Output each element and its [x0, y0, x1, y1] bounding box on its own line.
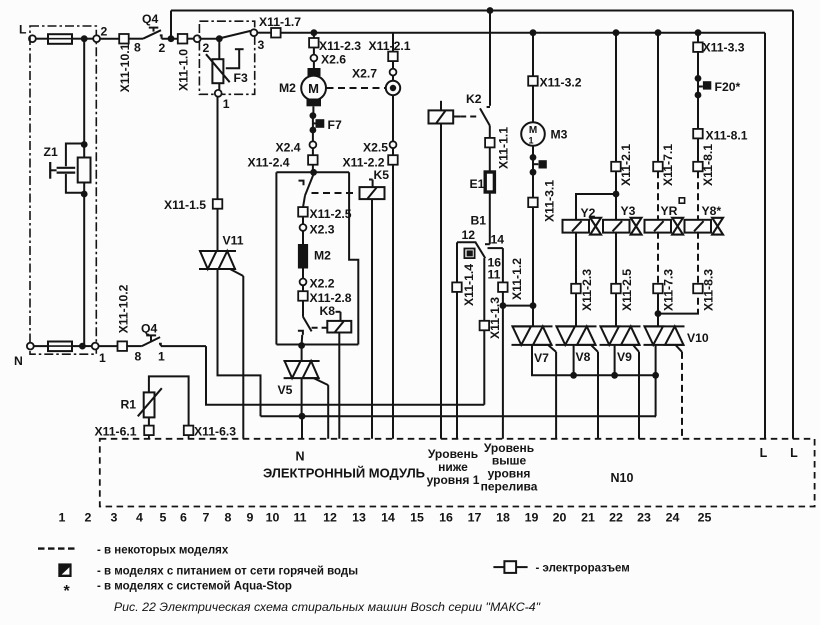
wire [312, 106, 314, 115]
svg-text:K8: K8 [320, 304, 336, 318]
wire [312, 165, 314, 173]
hot-water marker at contact 12 [464, 249, 474, 259]
wire bus down to module pin L [764, 33, 766, 439]
fuse (mains input) [48, 38, 72, 40]
wire [162, 38, 183, 40]
connector X11-8.1 (lower) [693, 162, 703, 172]
wire [483, 330, 485, 405]
node Y2 tee [613, 191, 620, 198]
wire [697, 95, 699, 129]
svg-text:Y8*: Y8* [702, 204, 722, 218]
switch K8 contact [303, 317, 312, 332]
wire Y2 feed [576, 194, 616, 220]
switch K5 contact (motor reversing) [299, 181, 304, 186]
svg-text:1: 1 [223, 97, 230, 111]
wire [502, 248, 504, 282]
thermal fuse F7 [313, 122, 316, 124]
node K2 tap on top rail [487, 7, 494, 14]
svg-text:4: 4 [136, 511, 143, 525]
wire tee to M3/V7 line [503, 305, 533, 307]
wire [72, 345, 82, 347]
svg-text:23: 23 [637, 511, 651, 525]
dashed wire Y8 [697, 171, 699, 220]
svg-text:V5: V5 [278, 383, 293, 397]
wire [532, 207, 534, 326]
svg-text:V10: V10 [687, 331, 709, 345]
node Z1 top [81, 141, 88, 148]
wire [83, 194, 85, 346]
wire to top rail [170, 11, 172, 39]
node commutator bottom [298, 342, 305, 349]
svg-text:YR: YR [661, 204, 678, 218]
connector X11-3.2 [528, 76, 538, 86]
svg-text:10: 10 [266, 511, 280, 525]
connector X11-1.2 [498, 282, 508, 292]
svg-text:3: 3 [258, 38, 265, 52]
node M3 branch [530, 29, 537, 36]
connector X11-7.1 [653, 162, 663, 172]
svg-text:F3: F3 [234, 71, 248, 85]
svg-text:X2.7: X2.7 [352, 67, 377, 81]
node Z1 bottom [81, 191, 88, 198]
svg-text:11: 11 [488, 268, 501, 282]
svg-text:X11-3.2: X11-3.2 [540, 76, 582, 90]
connector X11-1.4 [452, 282, 462, 292]
svg-text:X11-3.1: X11-3.1 [543, 180, 557, 222]
svg-text:X2.6: X2.6 [321, 53, 346, 67]
svg-text:X11-2.8: X11-2.8 [310, 291, 352, 305]
svg-text:1: 1 [59, 511, 66, 525]
dashed mechanical link to K8 [312, 327, 328, 329]
switch K2 contact [487, 106, 490, 108]
wire [615, 293, 617, 326]
svg-text:15: 15 [410, 511, 424, 525]
wire X11-1.4 line to module [456, 242, 458, 282]
svg-text:K2: K2 [466, 92, 482, 106]
svg-text:X11-2.5: X11-2.5 [310, 207, 352, 221]
wire [34, 345, 48, 347]
svg-text:X11-8.1: X11-8.1 [701, 144, 715, 186]
fuse (N side) [48, 345, 72, 347]
wire commutator frame right [349, 172, 358, 344]
svg-text:2: 2 [85, 511, 92, 525]
svg-text:8: 8 [134, 41, 141, 55]
wire [82, 345, 95, 347]
terminal 1 [92, 343, 99, 350]
node V8 bottom [570, 372, 577, 379]
wire [392, 95, 394, 141]
node commutator top [310, 169, 317, 176]
wire [532, 86, 534, 123]
wire [615, 232, 617, 284]
svg-text:3: 3 [111, 511, 118, 525]
svg-text:уровня: уровня [488, 467, 531, 481]
svg-text:X11-2.1: X11-2.1 [369, 39, 411, 53]
hot-water marker at M3 [533, 163, 538, 165]
svg-text:20: 20 [553, 511, 567, 525]
node F20 bottom [695, 92, 702, 99]
node X11-1.2 tee [500, 302, 507, 309]
svg-text:2: 2 [203, 41, 210, 55]
svg-text:X11-1.7: X11-1.7 [259, 15, 301, 29]
wire V11 bottom [218, 269, 261, 416]
dashed wire [697, 232, 699, 309]
wire [615, 171, 617, 220]
connector X11-1.3 [480, 321, 490, 331]
connector X11-2.3 (valve Y2) [571, 284, 581, 294]
dashed mechanical link K2 [453, 116, 460, 118]
node Y3 branch [613, 29, 620, 36]
svg-text:X11-7.1: X11-7.1 [661, 144, 675, 186]
legend hot-water square symbol [58, 563, 71, 577]
node junction L/Z1 [81, 35, 88, 42]
dashed mechanical link motor-tacho [327, 87, 386, 89]
svg-text:V8: V8 [576, 350, 591, 364]
wire [129, 38, 143, 40]
svg-text:19: 19 [525, 511, 539, 525]
connector X11-10.1 [119, 34, 129, 44]
svg-text:6: 6 [180, 511, 187, 525]
connector X11-2.8 [298, 291, 308, 301]
wire K5 coil to module [371, 199, 373, 439]
node Y8 branch [695, 29, 702, 36]
node YR/Y8 join [655, 310, 662, 317]
terminal X2.4 [310, 141, 317, 148]
wire N line [206, 346, 484, 405]
wire X11-1.2 line to module [502, 306, 504, 439]
node M3 marker bottom [530, 169, 537, 176]
svg-text:L: L [790, 446, 798, 460]
wire R1 loop [149, 376, 189, 425]
svg-text:16: 16 [439, 511, 453, 525]
node F3 top [216, 35, 223, 42]
terminal X2.7 [390, 69, 397, 76]
svg-text:B1: B1 [471, 214, 487, 228]
wire to module pin N [301, 416, 303, 439]
svg-text:X11-6.1: X11-6.1 [95, 425, 137, 439]
wire K2 coil to module [440, 124, 442, 439]
wire L rail down right side [792, 11, 794, 439]
connector X11-10.2 [118, 341, 128, 351]
wire [312, 130, 314, 141]
svg-text:L: L [760, 446, 768, 460]
connector X11-3.1 [528, 198, 538, 208]
svg-text:L: L [19, 23, 27, 37]
connector X11-1.1 [485, 138, 495, 148]
wire [532, 33, 534, 77]
svg-text:X2.4: X2.4 [276, 141, 301, 155]
electronic module N10 box [100, 439, 815, 507]
svg-text:17: 17 [468, 511, 482, 525]
wire V7 bottom [532, 345, 656, 375]
svg-text:перелива: перелива [481, 480, 538, 494]
svg-text:X11-10.2: X11-10.2 [116, 284, 130, 333]
svg-text:X11-2.3: X11-2.3 [580, 269, 594, 311]
connector X11-2.2 [388, 155, 398, 165]
svg-text:14: 14 [491, 233, 505, 247]
wire K2 from top rail [489, 11, 491, 106]
wire Y8 to YR join [658, 309, 698, 314]
svg-text:22: 22 [609, 511, 623, 525]
legend dash-dot symbol [38, 547, 75, 549]
svg-text:2: 2 [101, 25, 108, 39]
wire [489, 126, 491, 138]
wire [575, 232, 577, 284]
svg-text:X11-8.1: X11-8.1 [706, 129, 748, 143]
svg-text:*: * [64, 583, 71, 600]
svg-text:X11-10.1: X11-10.1 [118, 43, 132, 92]
dashed wire YR [657, 171, 659, 220]
wire switched-N rail [261, 415, 657, 417]
node N/Z1 [79, 343, 86, 350]
svg-text:M: M [308, 81, 319, 96]
dash-dot enclosure F3 [199, 21, 254, 94]
svg-text:- в моделях с питанием от сети: - в моделях с питанием от сети горячей в… [97, 566, 358, 578]
node M2 branch [311, 29, 318, 36]
node M3/X11-1.2/V7 [530, 302, 537, 309]
connector X11-2.3 [309, 38, 319, 48]
wire [614, 345, 616, 375]
connector X11-1.7 [271, 28, 281, 38]
wire [99, 345, 118, 347]
dashed mechanical link to K5 [312, 192, 358, 194]
wire B1 common down [483, 258, 485, 321]
contact 14 tick [485, 243, 490, 245]
wire X11-2.2 line to module [392, 165, 394, 439]
terminal X2.5 [390, 141, 397, 148]
svg-text:X11-3.3: X11-3.3 [703, 41, 745, 55]
wire [575, 293, 577, 326]
svg-text:Рис. 22 Электрическая схема ст: Рис. 22 Электрическая схема стиральных м… [114, 600, 541, 614]
svg-text:F20*: F20* [715, 80, 741, 94]
wire [301, 346, 303, 362]
svg-text:12: 12 [462, 228, 476, 242]
svg-text:X11-1.1: X11-1.1 [496, 127, 510, 169]
wire [302, 217, 304, 225]
svg-text:7: 7 [203, 511, 210, 525]
svg-text:24: 24 [666, 511, 680, 525]
node F7 bottom [310, 127, 317, 134]
svg-text:Уровень: Уровень [428, 447, 478, 461]
terminal X2.3 [300, 224, 307, 231]
tacho generator M2 sensor [392, 76, 394, 82]
svg-text:X11-6.3: X11-6.3 [194, 425, 236, 439]
terminal 3 [251, 29, 258, 36]
wire [127, 345, 142, 347]
wire [100, 38, 119, 40]
connector X11-6.1 [144, 426, 154, 436]
svg-text:14: 14 [381, 511, 395, 525]
wire Y8 feed [697, 33, 699, 43]
wire [148, 435, 150, 439]
wire YR feed [657, 33, 659, 162]
connector X11-8.1 (upper) [693, 129, 703, 139]
wire [302, 285, 304, 291]
wire [532, 172, 534, 197]
svg-text:X11-2.1: X11-2.1 [619, 144, 633, 186]
wire [257, 32, 271, 34]
svg-text:R1: R1 [121, 398, 137, 412]
contact 12 bracket and blade [457, 242, 485, 258]
legend connector symbol [493, 566, 504, 568]
node after Q4 [168, 35, 175, 42]
svg-text:ниже: ниже [438, 460, 468, 474]
wire [573, 345, 575, 375]
wire commutator frame top [276, 171, 349, 173]
wire F3 lower lead [218, 83, 220, 90]
svg-text:X11-1.4: X11-1.4 [462, 264, 476, 306]
svg-text:M3: M3 [551, 128, 568, 142]
svg-text:X11-8.3: X11-8.3 [702, 269, 716, 311]
svg-text:X11-1.3: X11-1.3 [488, 297, 502, 339]
connector X11-1.0 [178, 34, 188, 44]
node F7 top [310, 112, 317, 119]
svg-text:V7: V7 [534, 351, 549, 365]
svg-text:Q4: Q4 [141, 322, 157, 336]
svg-text:9: 9 [247, 511, 254, 525]
svg-text:X11-2.3: X11-2.3 [319, 39, 361, 53]
connector X11-6.3 [184, 426, 194, 436]
terminal 1 (F3 out) [215, 90, 222, 97]
terminal X2.2 [300, 279, 307, 286]
wire [36, 38, 48, 40]
bus wire L distribution [281, 32, 766, 34]
svg-text:V9: V9 [617, 350, 632, 364]
wire [657, 293, 659, 326]
svg-text:X11-7.3: X11-7.3 [662, 269, 676, 311]
node F20 top [695, 75, 702, 82]
svg-text:X11-2.5: X11-2.5 [620, 269, 634, 311]
svg-text:X2.3: X2.3 [310, 223, 335, 237]
svg-text:8: 8 [225, 511, 232, 525]
wire [697, 138, 699, 161]
svg-text:1: 1 [528, 136, 533, 146]
wire [302, 301, 304, 317]
dashed wire [657, 232, 659, 284]
connector X11-1.5 [213, 199, 223, 209]
switch blade F3 to contact 3 [221, 31, 251, 38]
wire K8 coil to module [338, 333, 340, 439]
wire [697, 52, 699, 79]
dash-dot enclosure Z1 filter box [30, 26, 96, 354]
connector X11-7.3 [653, 284, 663, 294]
svg-text:1: 1 [99, 351, 106, 365]
svg-text:X11-1.2: X11-1.2 [510, 258, 524, 300]
wire Y3 feed [615, 33, 617, 162]
wire [201, 38, 220, 40]
svg-text:Z1: Z1 [44, 145, 58, 159]
contact 16 bracket [488, 247, 503, 249]
wire [489, 147, 491, 172]
wire commutator frame left [275, 172, 277, 344]
svg-text:F7: F7 [328, 118, 342, 132]
node V5/module-N tee [299, 413, 306, 420]
fuse F20* (Aqua-Stop models) [698, 86, 703, 88]
wire [83, 39, 85, 145]
wire [161, 345, 206, 347]
connector X11-2.5 (valve Y3) [611, 284, 621, 294]
wire [217, 209, 219, 251]
wire [392, 148, 394, 155]
svg-text:E1: E1 [470, 177, 485, 191]
node M3 marker top [530, 154, 537, 161]
wire V5 bottom [301, 378, 303, 416]
svg-text:21: 21 [581, 511, 595, 525]
wire [392, 61, 394, 69]
connector X11-2.4 [308, 155, 318, 165]
svg-text:8: 8 [135, 350, 142, 364]
wire [532, 146, 534, 158]
wire [312, 148, 314, 155]
connector X11-2.1 (valve Y3) [611, 162, 621, 172]
svg-text:K5: K5 [374, 168, 390, 182]
svg-text:18: 18 [496, 511, 510, 525]
svg-text:12: 12 [323, 511, 337, 525]
wire [72, 38, 84, 40]
svg-text:- электроразъем: - электроразъем [536, 563, 630, 575]
wire [655, 345, 657, 375]
terminal 2 [93, 35, 100, 42]
svg-text:25: 25 [698, 511, 712, 525]
svg-text:Q4: Q4 [142, 12, 158, 26]
svg-text:M2: M2 [279, 81, 296, 95]
svg-text:N: N [14, 354, 23, 368]
node V10 bottom [652, 372, 659, 379]
svg-text:- в моделях с системой Aqua-St: - в моделях с системой Aqua-Stop [97, 581, 292, 593]
svg-text:V11: V11 [223, 234, 244, 248]
svg-text:X11-2.4: X11-2.4 [248, 156, 290, 170]
wire [187, 38, 197, 40]
node V9 bottom [611, 372, 618, 379]
terminal X2.6 [311, 55, 318, 62]
node YR branch [655, 29, 662, 36]
svg-text:X11-1.0: X11-1.0 [176, 49, 190, 91]
svg-text:Y3: Y3 [621, 204, 636, 218]
svg-text:N10: N10 [611, 471, 634, 485]
svg-text:1: 1 [158, 350, 165, 364]
connector X11-3.3 [693, 42, 703, 52]
wire [84, 38, 96, 40]
svg-text:выше: выше [492, 454, 527, 468]
wire [502, 292, 504, 306]
svg-text:X2.2: X2.2 [310, 277, 335, 291]
svg-text:X11-1.5: X11-1.5 [164, 198, 206, 212]
wire [217, 97, 219, 200]
svg-text:X2.5: X2.5 [363, 141, 388, 155]
svg-text:ЭЛЕКТРОННЫЙ МОДУЛЬ: ЭЛЕКТРОННЫЙ МОДУЛЬ [263, 466, 425, 481]
connector X11-8.3 [693, 284, 703, 294]
svg-text:N: N [295, 450, 304, 464]
svg-text:5: 5 [160, 511, 167, 525]
svg-text:M2: M2 [314, 249, 331, 263]
svg-text:уровня 1: уровня 1 [427, 473, 480, 487]
winding M2 rotor [302, 231, 304, 244]
svg-text:- в некоторых моделях: - в некоторых моделях [97, 545, 229, 557]
wire V10 common down to switched-N [655, 375, 657, 416]
wire [313, 48, 315, 55]
wire [188, 435, 190, 439]
top L rail wire [171, 10, 793, 12]
wire [313, 33, 315, 38]
svg-text:M: M [529, 125, 537, 136]
wire [489, 192, 491, 244]
svg-text:13: 13 [352, 511, 366, 525]
svg-text:11: 11 [293, 511, 306, 525]
connector X11-2.5 [298, 207, 308, 217]
terminal (F3 box input) [194, 35, 201, 42]
wire commutator frame bottom [276, 344, 358, 346]
tachogenerator branch: connector X11-2.1 [392, 33, 394, 52]
